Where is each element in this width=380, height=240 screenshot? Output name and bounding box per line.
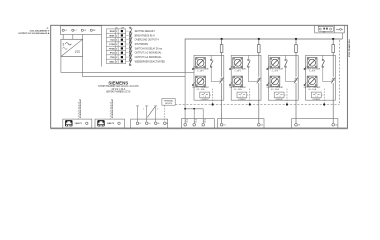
svg-text:SETTING DEFAULT: SETTING DEFAULT	[135, 30, 156, 33]
svg-text:OUTPUT: DC 24 V/40 A/4x10 A: OUTPUT: DC 24 V/40 A/4x10 A	[18, 32, 49, 35]
svg-text:ITV4: ITV4	[110, 56, 115, 59]
svg-text:LTD4: LTD4	[109, 43, 115, 46]
svg-text:OVERLOAD OUTPUT 4: OVERLOAD OUTPUT 4	[135, 39, 160, 42]
svg-text:WEBSERVER DEACTIVATED: WEBSERVER DEACTIVATED	[135, 60, 166, 63]
svg-text:L3: L3	[84, 30, 86, 32]
svg-text:IPL4: IPL4	[110, 52, 115, 55]
svg-text:LAN P2: LAN P2	[107, 122, 115, 125]
svg-text:3: 3	[63, 42, 65, 46]
svg-text:TTM4: TTM4	[109, 47, 115, 50]
svg-text:2: 2	[157, 109, 158, 111]
svg-text:ETHERNET/PROFINET: ETHERNET/PROFINET	[80, 98, 82, 118]
svg-text:SWITCH-ON DELAY 50 ms: SWITCH-ON DELAY 50 ms	[135, 47, 163, 50]
svg-text:O2: O2	[261, 125, 263, 127]
svg-text:1: 1	[143, 109, 144, 111]
svg-text:1a: 1a	[149, 123, 151, 125]
svg-text:BRIGHTNESS 96 H: BRIGHTNESS 96 H	[135, 35, 155, 37]
svg-text:X3: X3	[323, 31, 325, 33]
svg-text:SITOP PSU8600 40 A: SITOP PSU8600 40 A	[348, 39, 351, 57]
svg-text:BW1: BW1	[110, 35, 116, 37]
svg-text:DEVICE: DEVICE	[165, 103, 173, 105]
svg-text:RUN: RUN	[110, 31, 115, 33]
svg-text:LAN P1: LAN P1	[75, 122, 83, 125]
svg-text:24 V/4 x 10 A: 24 V/4 x 10 A	[111, 88, 125, 91]
svg-text:OUTPUT 3+4 INDIVIDUAL: OUTPUT 3+4 INDIVIDUAL	[135, 56, 163, 59]
svg-text:ETHERNET/PROFINET: ETHERNET/PROFINET	[112, 98, 114, 118]
svg-text:L2: L2	[74, 30, 76, 32]
svg-text:6EP3437-8MB00-2CY0: 6EP3437-8MB00-2CY0	[106, 92, 131, 94]
svg-text:AIDL: AIDL	[109, 60, 115, 63]
svg-text:L1: L1	[65, 30, 67, 32]
svg-text:O1: O1	[224, 125, 226, 127]
svg-text:SIEMENS: SIEMENS	[108, 80, 128, 85]
svg-text:1b: 1b	[158, 123, 160, 125]
svg-text:DB: DB	[204, 122, 206, 124]
svg-text:O3: O3	[298, 125, 300, 127]
svg-text:L2: L2	[139, 123, 141, 125]
svg-text:OFF: OFF	[121, 27, 124, 29]
svg-text:SITOP PSU8600 3AC 40 A/4 x 10: SITOP PSU8600 3AC 40 A/4 x 10 A PN	[98, 85, 139, 88]
svg-text:CE: CE	[186, 122, 188, 124]
svg-text:SHUTDOWN: SHUTDOWN	[135, 44, 149, 46]
svg-text:OUTPUT 1+2 INDIVIDUAL: OUTPUT 1+2 INDIVIDUAL	[135, 52, 163, 55]
svg-text:O4: O4	[335, 125, 337, 127]
